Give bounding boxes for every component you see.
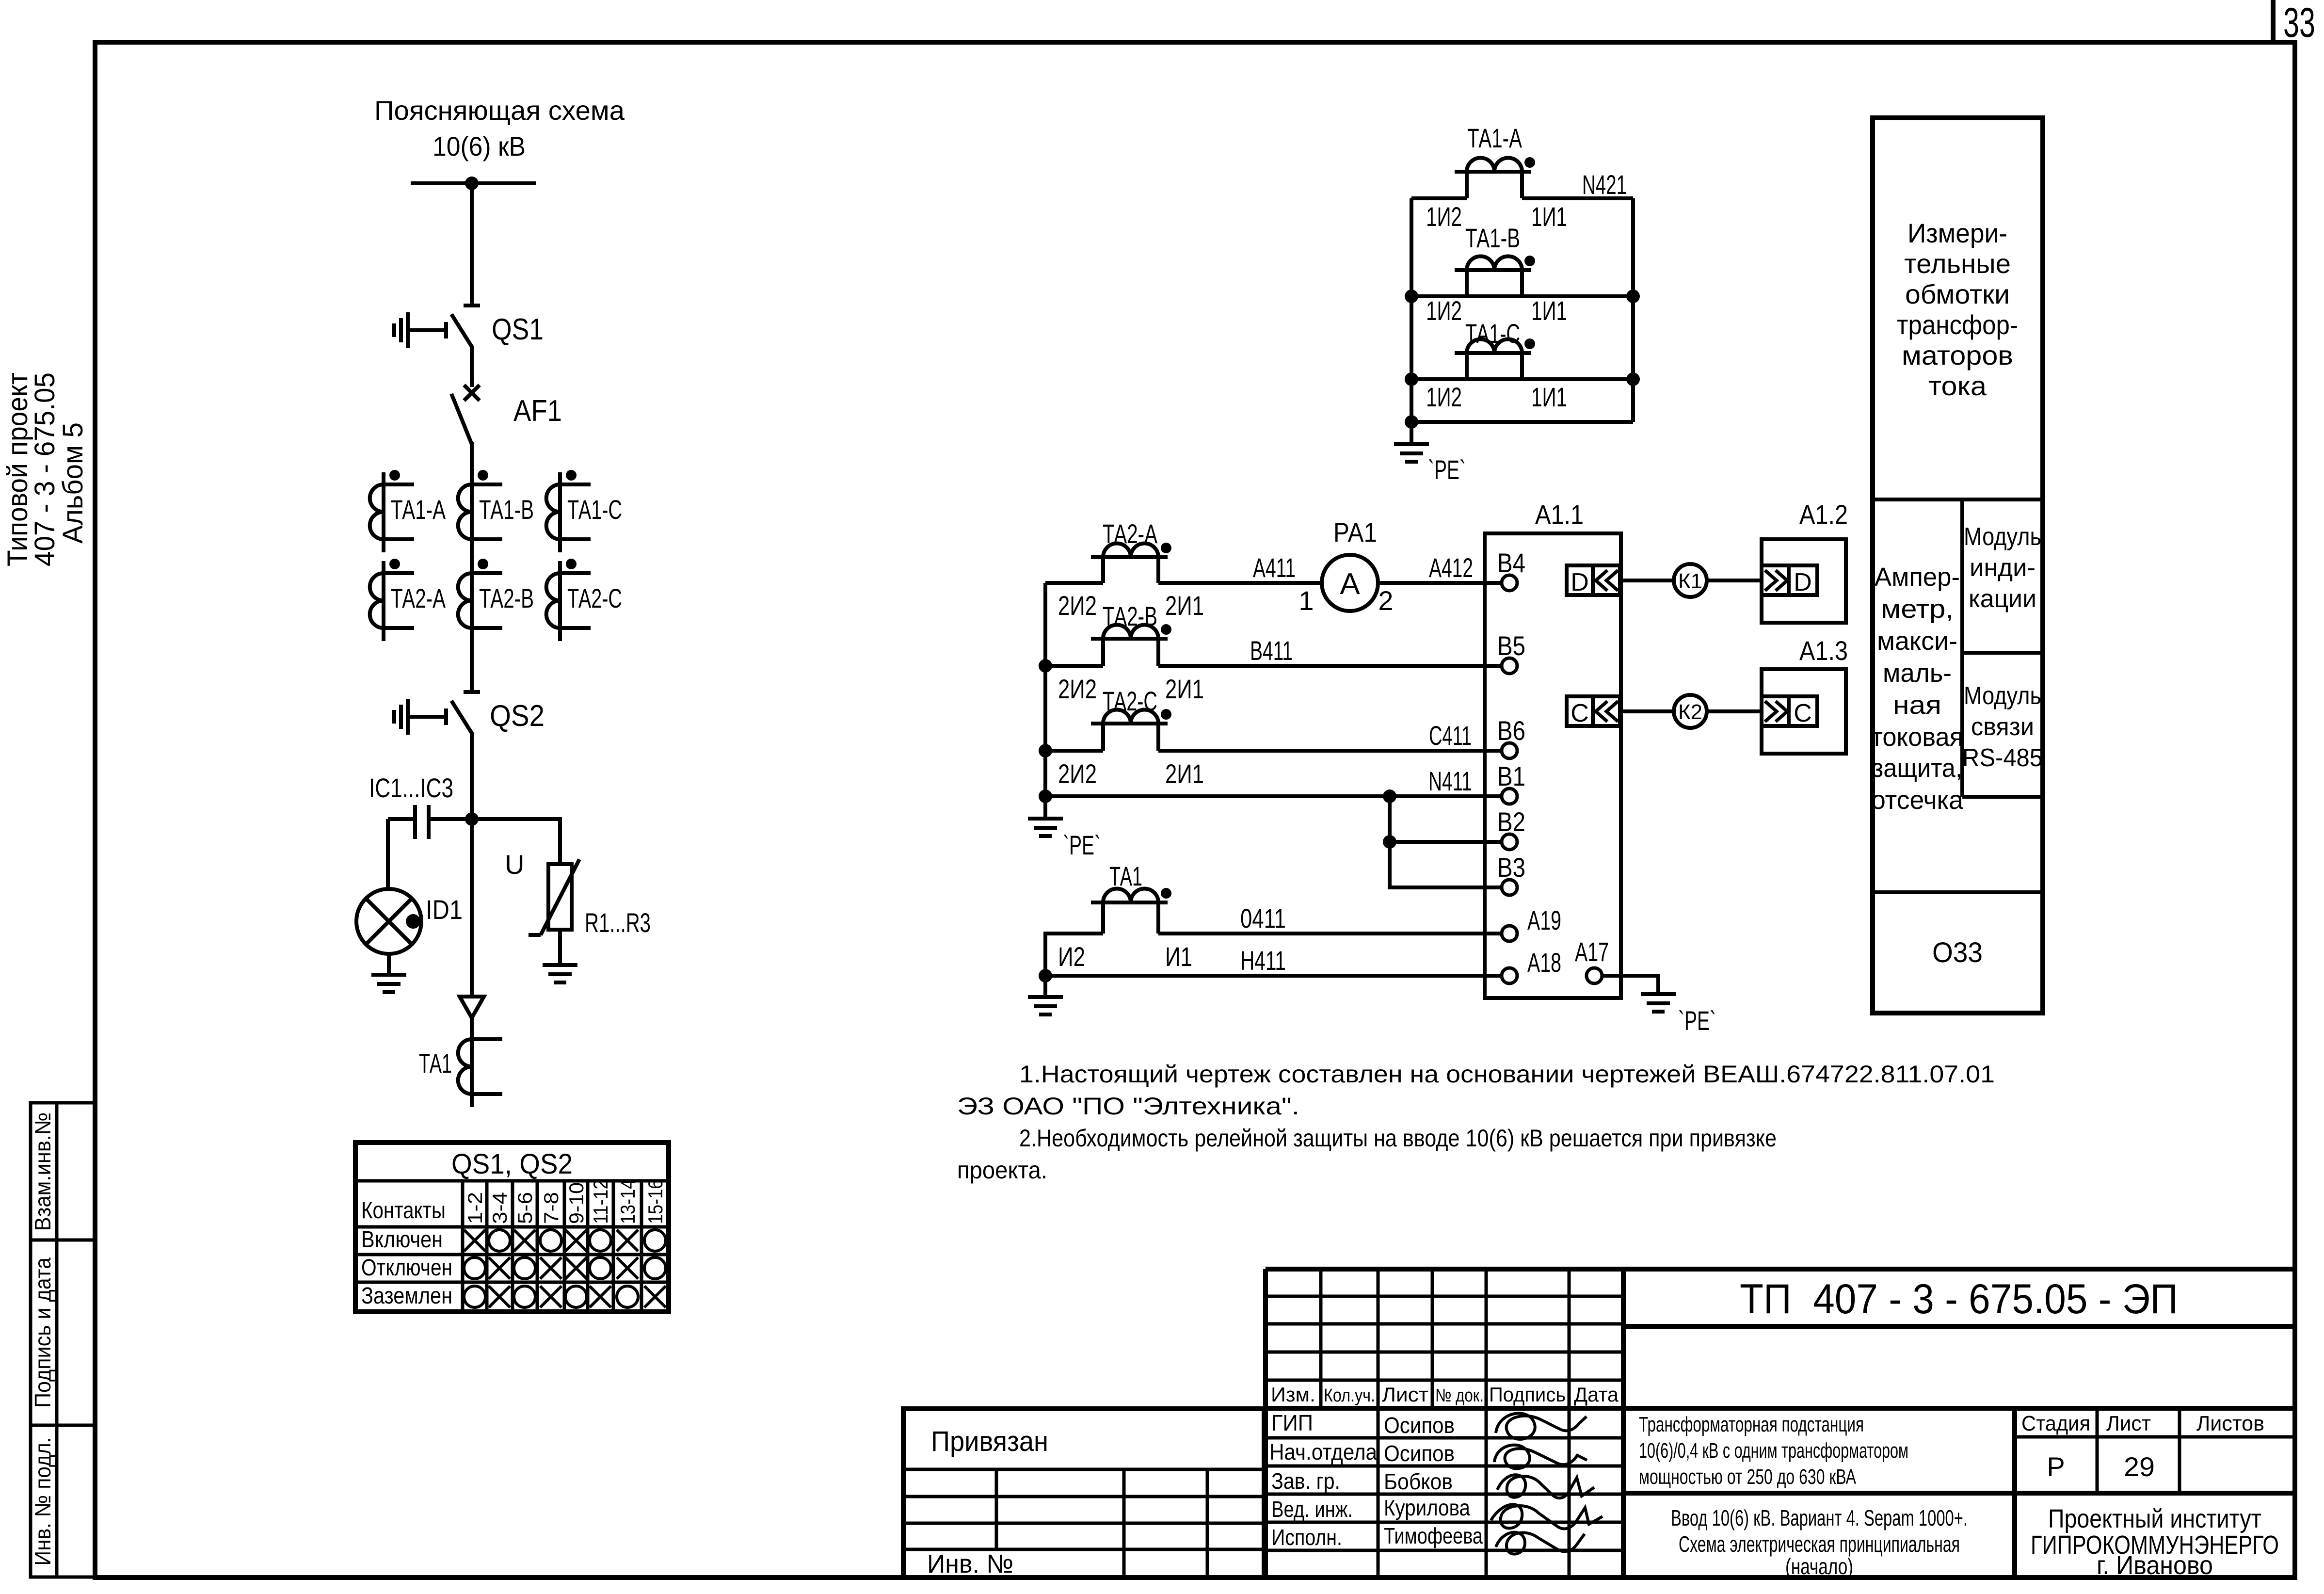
svg-text:трансфор-: трансфор-	[1897, 309, 2018, 340]
wire K1 to A1.2	[1707, 579, 1762, 582]
current transformer TA1-C	[546, 470, 591, 552]
svg-text:U: U	[505, 849, 524, 880]
terminal A18	[1502, 968, 1517, 983]
svg-text:ТА1: ТА1	[1109, 861, 1142, 891]
wire TA2-C to left riser	[1045, 749, 1103, 753]
current transformer TA2-C	[546, 559, 591, 641]
svg-text:В4: В4	[1497, 547, 1525, 578]
svg-text:обмотки: обмотки	[1905, 279, 2010, 309]
svg-text:2И2: 2И2	[1058, 758, 1097, 789]
node N411 left	[1039, 789, 1052, 803]
svg-text:ТА1-А: ТА1-А	[391, 494, 446, 525]
indicator lamp ID1	[356, 889, 421, 954]
svg-text:9-10: 9-10	[565, 1182, 588, 1224]
TA1 lead И2	[1101, 902, 1105, 934]
wire N411 to B2	[1390, 796, 1502, 842]
ammeter PA1	[1322, 555, 1378, 611]
svg-text:ТА1-С: ТА1-С	[1465, 318, 1520, 349]
connector C on A1.3	[1762, 696, 1817, 727]
terminal B4	[1502, 575, 1517, 591]
contact mark O	[489, 1230, 510, 1251]
svg-text:1: 1	[1298, 585, 1314, 616]
wire QS1 to AF1	[470, 346, 474, 387]
wire right loop riser N421	[1631, 198, 1635, 422]
TA1-B lead 1И1	[1520, 270, 1524, 296]
panel text: RS-485 module	[1962, 682, 2043, 772]
svg-text:1.Настоящий чертеж составлен н: 1.Настоящий чертеж составлен на основани…	[1019, 1061, 1995, 1088]
svg-text:N421: N421	[1582, 169, 1627, 200]
svg-text:2И1: 2И1	[1165, 758, 1204, 789]
svg-text:ЭЗ ОАО "ПО "Элтехника".: ЭЗ ОАО "ПО "Элтехника".	[957, 1093, 1299, 1120]
svg-text:№ док.: № док.	[1435, 1385, 1484, 1406]
svg-text:2И2: 2И2	[1058, 590, 1097, 621]
svg-text:К2: К2	[1678, 700, 1702, 724]
svg-text:1И2: 1И2	[1426, 295, 1462, 326]
svg-text:10(6)/0,4 кВ с одним трансформ: 10(6)/0,4 кВ с одним трансформатором	[1639, 1439, 1908, 1463]
surge arrester R1...R3	[529, 859, 579, 935]
svg-text:А19: А19	[1527, 905, 1561, 935]
signature 3	[1497, 1475, 1594, 1498]
contact mark O	[644, 1230, 666, 1251]
QS2 earthing knife	[394, 699, 446, 735]
svg-text:ТА2-А: ТА2-А	[391, 583, 446, 613]
svg-text:`PE`: `PE`	[1063, 830, 1101, 860]
svg-text:Инв. № подл.: Инв. № подл.	[30, 1437, 55, 1566]
node TA2-C riser	[1039, 744, 1052, 757]
contact mark X	[617, 1230, 638, 1251]
contact mark O	[590, 1230, 611, 1251]
ground PE of CT loop	[1394, 422, 1429, 462]
TA2-B lead 2И2	[1101, 639, 1105, 666]
wire left loop riser	[1410, 198, 1413, 422]
svg-text:Модуль: Модуль	[1964, 682, 2041, 710]
wire H411	[1045, 974, 1502, 978]
page number divider line	[2271, 0, 2276, 42]
svg-text:15-16: 15-16	[644, 1179, 667, 1224]
ground under R1...R3	[543, 930, 577, 982]
svg-text:Нач.отдела: Нач.отдела	[1269, 1439, 1377, 1465]
svg-text:макси-: макси-	[1877, 627, 1957, 656]
svg-text:Бобков: Бобков	[1384, 1469, 1453, 1494]
contact mark X	[565, 1257, 587, 1279]
svg-text:407 - 3 - 675.05: 407 - 3 - 675.05	[29, 372, 61, 566]
TA1-C lead 1И1	[1520, 353, 1524, 379]
svg-text:Лист: Лист	[2106, 1412, 2151, 1435]
svg-text:2.Необходимость релейной защит: 2.Необходимость релейной защиты на вводе…	[1019, 1125, 1777, 1152]
node right row2	[1626, 290, 1640, 303]
svg-text:ТА2-В: ТА2-В	[1103, 601, 1157, 631]
wire bus row3	[1411, 377, 1633, 381]
svg-text:связи: связи	[1971, 713, 2034, 741]
svg-text:ID1: ID1	[426, 894, 463, 925]
connector C on A1.1	[1567, 696, 1620, 727]
contact mark O	[514, 1257, 535, 1279]
circuit breaker AF1	[451, 385, 480, 444]
contact mark X	[489, 1286, 510, 1307]
svg-text:Ввод 10(6) кВ. Вариант 4. Sepa: Ввод 10(6) кВ. Вариант 4. Sepam 1000+.	[1671, 1505, 1968, 1530]
svg-text:R1...R3: R1...R3	[585, 907, 651, 938]
left margin stamp boxes	[31, 1103, 95, 1577]
svg-text:А: А	[1340, 567, 1360, 601]
wire bottom bus	[1411, 420, 1633, 424]
svg-text:Н411: Н411	[1240, 945, 1286, 976]
svg-text:Контакты: Контакты	[361, 1198, 446, 1224]
svg-text:маль-: маль-	[1883, 659, 1952, 688]
svg-text:2: 2	[1378, 585, 1393, 616]
svg-text:AF1: AF1	[513, 394, 562, 428]
QS1 earthing knife	[394, 312, 446, 348]
svg-text:Курилова: Курилова	[1384, 1495, 1470, 1520]
svg-text:отсечка: отсечка	[1871, 786, 1964, 815]
svg-text:РА1: РА1	[1333, 517, 1377, 547]
ground PE of measuring circuit	[1028, 796, 1063, 836]
svg-text:ГИП: ГИП	[1271, 1410, 1313, 1435]
node right row3	[1626, 372, 1640, 386]
wire TA2-A to left riser	[1045, 581, 1103, 585]
svg-text:С411: С411	[1429, 720, 1472, 751]
svg-text:D: D	[1571, 568, 1589, 596]
wire top bus left segment	[1411, 196, 1467, 200]
svg-text:метр,: метр,	[1881, 595, 1954, 624]
svg-text:11-12: 11-12	[589, 1179, 612, 1224]
contact mark X	[464, 1230, 485, 1251]
disconnector QS2	[451, 692, 480, 735]
svg-text:Проектный институт: Проектный институт	[2048, 1504, 2261, 1533]
contact mark X	[540, 1286, 561, 1307]
svg-text:кации: кации	[1969, 585, 2036, 613]
svg-text:ТА2-С: ТА2-С	[567, 583, 622, 613]
disconnector QS1	[451, 306, 480, 348]
current transformer TA1 (zero sequence)	[1091, 888, 1171, 902]
node on busbar	[465, 177, 479, 190]
svg-text:7-8: 7-8	[540, 1192, 562, 1224]
wire bus row2	[1411, 294, 1633, 298]
svg-text:ТА1: ТА1	[419, 1048, 452, 1079]
wire branch to B3	[1390, 842, 1502, 887]
node capacitor branch	[465, 812, 479, 826]
cable K2	[1674, 695, 1707, 728]
svg-text:Тимофеева: Тимофеева	[1384, 1523, 1483, 1548]
svg-text:А412: А412	[1429, 552, 1473, 583]
contact mark X	[514, 1230, 535, 1251]
busbar 10(6) kV	[411, 181, 536, 185]
svg-text:В411: В411	[1250, 635, 1293, 666]
TA1-A lead 1И1	[1520, 172, 1524, 198]
current transformer TA2-A (measuring circuit)	[1091, 543, 1171, 557]
svg-text:тока: тока	[1928, 370, 1987, 401]
current transformer TA2-B (measuring circuit)	[1091, 624, 1171, 639]
svg-text:QS1, QS2: QS1, QS2	[451, 1148, 573, 1180]
TA2-A lead 2И1	[1156, 557, 1160, 583]
svg-text:тельные: тельные	[1904, 248, 2011, 279]
svg-text:А1.2: А1.2	[1799, 499, 1848, 530]
svg-text:Листов: Листов	[2196, 1412, 2264, 1435]
module A1.3	[1762, 669, 1846, 754]
TA1-C lead 1И2	[1465, 353, 1469, 379]
svg-text:ТА2-В: ТА2-В	[479, 583, 534, 613]
svg-text:г. Иваново: г. Иваново	[2097, 1551, 2213, 1580]
contact mark X	[644, 1286, 666, 1307]
svg-text:Измери-: Измери-	[1907, 218, 2007, 248]
wire C411	[1158, 749, 1502, 753]
cable K1	[1674, 564, 1707, 597]
svg-text:C: C	[1571, 699, 1589, 727]
svg-text:Схема электрическая принципиал: Схема электрическая принципиальная	[1679, 1531, 1960, 1557]
terminal B6	[1502, 743, 1517, 758]
svg-text:13-14: 13-14	[616, 1179, 639, 1224]
svg-text:2И2: 2И2	[1058, 674, 1097, 704]
svg-text:Осипов: Осипов	[1384, 1441, 1455, 1466]
svg-text:IC1...IC3: IC1...IC3	[369, 773, 453, 803]
wire arrow to TA1	[470, 1016, 474, 1027]
svg-text:Отключен: Отключен	[361, 1255, 452, 1281]
ground PE at A17	[1641, 994, 1676, 1012]
contact mark O	[464, 1257, 485, 1279]
svg-text:(начало): (начало)	[1785, 1554, 1853, 1579]
node TA2-B riser	[1039, 659, 1052, 673]
svg-text:Поясняющая схема: Поясняющая схема	[374, 95, 625, 126]
svg-text:ТА2-А: ТА2-А	[1103, 518, 1157, 549]
svg-text:токовая: токовая	[1871, 723, 1963, 752]
current transformer TA1 (feeder)	[458, 1027, 502, 1107]
connector D on A1.1	[1567, 565, 1620, 596]
function panel box	[1873, 118, 2043, 1013]
svg-text:О33: О33	[1932, 937, 1983, 968]
wire bus to QS1	[470, 183, 474, 306]
terminal B2	[1502, 834, 1517, 850]
svg-text:ТА1-В: ТА1-В	[479, 494, 534, 525]
svg-text:Заземлен: Заземлен	[361, 1283, 452, 1309]
svg-text:Исполн.: Исполн.	[1271, 1525, 1342, 1550]
terminal B1	[1502, 789, 1517, 804]
svg-text:А1.3: А1.3	[1799, 635, 1848, 666]
svg-text:защита,: защита,	[1872, 754, 1962, 783]
svg-text:Изм.: Изм.	[1271, 1383, 1315, 1406]
contact mark X	[565, 1230, 587, 1251]
svg-text:Альбом 5: Альбом 5	[57, 422, 89, 544]
node left row2	[1405, 290, 1418, 303]
svg-text:И2: И2	[1058, 941, 1085, 972]
svg-text:29: 29	[2124, 1451, 2155, 1482]
svg-text:1И2: 1И2	[1426, 201, 1462, 232]
title block grid	[1266, 1269, 2295, 1578]
svg-text:Дата: Дата	[1574, 1383, 1619, 1406]
TA2-C lead 2И1	[1156, 724, 1160, 751]
terminal A19	[1502, 926, 1517, 941]
svg-text:Кол.уч.: Кол.уч.	[1324, 1385, 1375, 1406]
wire top bus right segment	[1522, 196, 1633, 200]
wire B411	[1158, 664, 1502, 668]
wire A1.1 to K2	[1620, 709, 1674, 713]
wire TA1 to riser	[1045, 934, 1103, 976]
contact mark X	[617, 1257, 638, 1279]
svg-text:Взам.инв.№: Взам.инв.№	[30, 1112, 55, 1231]
TA2-C lead 2И2	[1101, 724, 1105, 751]
connector D on A1.2	[1762, 565, 1817, 596]
cable arrow head	[460, 997, 484, 1018]
terminal block A1.1	[1485, 533, 1621, 998]
svg-text:Р: Р	[2047, 1451, 2065, 1482]
svg-text:И1: И1	[1165, 941, 1192, 972]
svg-text:QS2: QS2	[490, 699, 545, 733]
ground under ID1	[371, 954, 406, 992]
svg-text:`PE`: `PE`	[1678, 1005, 1716, 1036]
svg-text:Лист: Лист	[1382, 1383, 1428, 1406]
TA2-A lead 2И2	[1101, 557, 1105, 583]
svg-text:В3: В3	[1497, 852, 1525, 883]
svg-text:В5: В5	[1497, 630, 1525, 661]
svg-text:QS1: QS1	[492, 313, 544, 346]
svg-text:2И1: 2И1	[1165, 590, 1204, 621]
contact mark X	[590, 1286, 611, 1307]
panel text: measuring windings	[1897, 218, 2018, 401]
svg-text:инди-: инди-	[1970, 554, 2036, 582]
wire to lamp ID1	[386, 819, 390, 890]
svg-text:10(6) кВ: 10(6) кВ	[433, 131, 526, 161]
terminal A17	[1587, 968, 1602, 983]
wire A17 to ground	[1602, 976, 1658, 994]
svg-text:Подпись: Подпись	[1489, 1383, 1566, 1406]
svg-text:N411: N411	[1428, 766, 1472, 796]
svg-text:проекта.: проекта.	[957, 1157, 1047, 1184]
svg-text:ТП 407 - 3 - 675.05 - ЭП: ТП 407 - 3 - 675.05 - ЭП	[1740, 1276, 2178, 1322]
signature 1	[1496, 1413, 1587, 1439]
current transformer TA1-C (secondary loop)	[1455, 338, 1535, 353]
contact mark O	[540, 1230, 561, 1251]
svg-text:Стадия: Стадия	[2021, 1412, 2090, 1435]
ground under TA1 riser	[1028, 976, 1063, 1014]
svg-text:Подпись и дата: Подпись и дата	[30, 1257, 55, 1408]
svg-text:А411: А411	[1253, 552, 1296, 583]
contact state table QS1,QS2	[355, 1143, 669, 1312]
svg-text:Включен: Включен	[361, 1227, 443, 1253]
current transformer TA1-A (secondary loop)	[1455, 157, 1535, 172]
svg-text:Модуль: Модуль	[1964, 523, 2041, 551]
panel text: ammeter overcurrent protection	[1871, 563, 1964, 815]
svg-text:ТА1-А: ТА1-А	[1467, 123, 1522, 153]
module A1.2	[1762, 539, 1846, 623]
current transformer TA2-C (measuring circuit)	[1091, 709, 1171, 724]
svg-text:`PE`: `PE`	[1428, 454, 1466, 485]
current transformer TA1-A	[370, 470, 414, 552]
wire to surge arresters	[472, 819, 560, 866]
wire left riser PE	[1043, 583, 1047, 796]
svg-text:ТА1-С: ТА1-С	[567, 494, 622, 525]
panel text: indication module	[1964, 523, 2041, 613]
svg-text:C: C	[1794, 699, 1812, 727]
contact mark X	[489, 1257, 510, 1279]
svg-text:0411: 0411	[1240, 903, 1286, 934]
wire A412	[1378, 581, 1502, 585]
current transformer TA2-B	[458, 559, 502, 641]
svg-text:33: 33	[2283, 0, 2315, 46]
svg-text:1И1: 1И1	[1531, 201, 1567, 232]
node left row3	[1405, 372, 1418, 386]
svg-text:А18: А18	[1527, 947, 1561, 978]
current transformer TA1-B (secondary loop)	[1455, 256, 1535, 270]
svg-text:В2: В2	[1497, 806, 1525, 837]
node B2 branch	[1383, 835, 1396, 849]
svg-text:RS-485: RS-485	[1962, 744, 2043, 772]
svg-text:ТА1-В: ТА1-В	[1465, 223, 1520, 253]
svg-text:мощностью от 250 до 630 кВА: мощностью от 250 до 630 кВА	[1639, 1465, 1856, 1489]
contact mark O	[644, 1257, 666, 1279]
svg-text:Инв. №: Инв. №	[927, 1549, 1013, 1578]
capacitor IC1...IC3	[388, 805, 472, 839]
contact mark O	[464, 1286, 485, 1307]
svg-text:1-2: 1-2	[464, 1192, 486, 1224]
svg-text:Ампер-: Ампер-	[1875, 563, 1960, 592]
wire AF1 to CT rows	[470, 442, 474, 692]
svg-text:К1: К1	[1678, 569, 1702, 593]
svg-text:маторов: маторов	[1902, 340, 2013, 370]
svg-text:Привязан: Привязан	[931, 1426, 1048, 1457]
svg-text:В6: В6	[1497, 715, 1525, 746]
svg-text:Осипов: Осипов	[1384, 1413, 1455, 1438]
contact mark O	[565, 1286, 587, 1307]
svg-text:3-4: 3-4	[488, 1192, 511, 1224]
signature 2	[1494, 1445, 1587, 1469]
TA1-B lead 1И2	[1465, 270, 1469, 296]
svg-text:1И2: 1И2	[1426, 382, 1462, 412]
svg-text:Трансформаторная подстанция: Трансформаторная подстанция	[1639, 1413, 1864, 1436]
signature 4	[1491, 1504, 1603, 1529]
wire N411	[1045, 794, 1502, 798]
svg-text:В1: В1	[1497, 761, 1525, 791]
wire TA2-B to left riser	[1045, 664, 1103, 668]
svg-text:5-6: 5-6	[513, 1192, 536, 1224]
TA2-B lead 2И1	[1156, 639, 1160, 666]
node H411	[1039, 969, 1052, 982]
contact mark O	[514, 1286, 535, 1307]
wire A411	[1158, 581, 1322, 585]
svg-text:D: D	[1794, 568, 1812, 596]
svg-text:А17: А17	[1575, 936, 1609, 967]
contact mark O	[617, 1286, 638, 1307]
svg-text:2И1: 2И1	[1165, 674, 1204, 704]
contact mark X	[540, 1257, 561, 1279]
svg-text:Вед. инж.: Вед. инж.	[1271, 1497, 1353, 1522]
svg-text:ная: ная	[1893, 691, 1941, 720]
attachment stamp box	[903, 1409, 1264, 1578]
current transformer TA2-A	[370, 559, 414, 641]
current transformer TA1-B	[458, 470, 502, 552]
wire K2 to A1.3	[1707, 709, 1762, 713]
node N411 branch	[1383, 789, 1396, 803]
svg-text:ТА2-С: ТА2-С	[1103, 686, 1157, 716]
wire 0411	[1158, 932, 1502, 935]
svg-text:1И1: 1И1	[1531, 295, 1567, 326]
terminal B3	[1502, 880, 1517, 895]
svg-text:1И1: 1И1	[1531, 382, 1567, 412]
signature 5	[1496, 1532, 1585, 1554]
node bottom left	[1405, 415, 1418, 429]
terminal B5	[1502, 658, 1517, 674]
contact mark O	[590, 1257, 611, 1279]
TA1-A lead 1И2	[1465, 172, 1469, 198]
svg-text:Зав. гр.: Зав. гр.	[1271, 1468, 1340, 1494]
svg-text:А1.1: А1.1	[1535, 499, 1584, 530]
wire QS2 down to TA1	[470, 733, 474, 997]
TA1 lead И1	[1156, 902, 1160, 934]
wire A1.1 to K1	[1620, 579, 1674, 582]
